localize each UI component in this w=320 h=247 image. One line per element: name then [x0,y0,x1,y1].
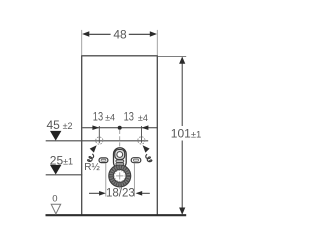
center dot [118,126,122,130]
svg-text:45: 45 [47,118,61,132]
svg-text:18/23: 18/23 [106,188,135,200]
svg-text:±4: ±4 [105,113,115,123]
arrow left of 48 [82,31,89,36]
vertical centerline [119,130,121,149]
bracket slot bar 2 [116,163,124,165]
left hose arrow [90,145,97,152]
svg-text:±4: ±4 [138,113,148,123]
level line 45 [46,140,149,142]
extension line right 18/23 [133,163,135,196]
drain pipe inner edge [113,170,126,183]
svg-text:±2: ±2 [63,121,73,131]
left fixing slot [99,158,108,163]
level line 25 [46,174,83,176]
arrow at right water conn [142,125,149,130]
dimension line 13/13 [82,127,157,129]
extension line top right for 101 dim [158,56,186,58]
right fixing slot hole [133,159,138,161]
level triangle 45 [50,131,61,141]
centerline below drain [119,187,121,189]
right hose squiggle [145,154,152,163]
bracket boss [115,150,125,160]
svg-text:48: 48 [113,28,127,42]
svg-text:0: 0 [52,194,57,205]
drain inner tick ring [114,170,125,181]
svg-text:13: 13 [93,109,104,123]
bracket slot bar 1 [116,160,124,162]
right fixing slot [131,158,141,163]
arrow top of 101 [179,57,185,64]
arrow right of 48 [150,31,157,36]
svg-text:101±1: 101±1 [171,127,202,141]
svg-text:13: 13 [124,110,135,124]
dimension line 101 lower segment [181,141,183,214]
left fixing slot hole [101,159,106,161]
dimension line 101 upper segment [181,58,183,127]
dim line 18/23 right tail [142,192,150,194]
left hose squiggle [87,153,94,162]
svg-text:25: 25 [50,153,64,167]
bracket pill [114,148,127,169]
extension line right of 48 dim [156,30,158,56]
extension line left 18/23 [105,163,107,197]
water connection circle left [96,137,103,144]
extension line left of 48 dim [81,30,83,56]
water connection circle right [138,137,145,144]
extension tick left water conn [98,126,100,143]
drain pipe knurl ring [111,167,128,184]
dimension line 48 left segment [89,33,110,35]
extension tick right water conn [141,126,143,143]
drain crosshair horizontal [116,175,123,177]
right hose arrow [143,145,150,152]
svg-text:±1: ±1 [63,156,73,166]
arrow at left water conn [92,125,99,130]
arrow left 18/23 [99,191,106,196]
module outline rectangle [82,56,158,215]
floor line [46,214,187,216]
drain crosshair vertical [119,172,121,179]
dim line 18/23 left tail [89,192,99,194]
level triangle 25 [50,165,61,175]
dimension line 48 right segment [129,33,150,35]
arrow bottom of 101 [179,208,185,215]
arrow right 18/23 [136,191,143,196]
drain pipe knurl ticks [111,167,128,184]
svg-text:R½: R½ [84,162,100,173]
drain pipe outer circle [109,165,131,187]
zero level open triangle [51,204,61,214]
bracket inner circle [117,152,123,158]
